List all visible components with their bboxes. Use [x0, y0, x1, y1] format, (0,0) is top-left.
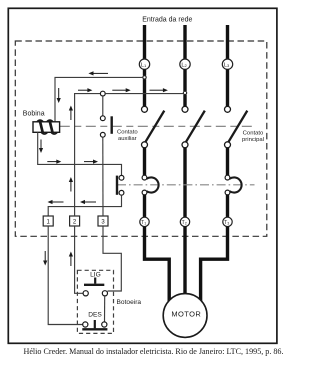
contactor enclosure dashed box: [15, 41, 266, 236]
wire phase3 overload to T3: [226, 195, 229, 217]
node L1 tap: [143, 76, 146, 79]
arrow right on node-to-L2 wire 1: [112, 88, 130, 92]
main contact K3 phase3: [225, 106, 248, 148]
svg-text:Bobina: Bobina: [23, 111, 45, 118]
main contact K2 phase2: [182, 106, 205, 148]
arrow up on terminal2 wire bottom: [69, 252, 73, 267]
arrow right on node-to-L2 wire 2: [150, 88, 168, 92]
arrow left on wire to terminal 1 (left): [48, 200, 64, 204]
wire LIG right to DES right: [104, 296, 106, 322]
wire terminal2 down to LIG left: [75, 226, 84, 293]
arrow down on coil feed: [57, 88, 61, 103]
node L2 return: [183, 91, 186, 94]
overload element F3 phase3: [225, 175, 241, 195]
svg-text:T2: T2: [182, 220, 187, 226]
motor lead T2: [183, 227, 186, 296]
mechanical link dash line contacts: [60, 125, 254, 127]
arrow up on terminal2 wire mid: [69, 177, 73, 192]
seal node junction: [100, 91, 105, 96]
terminal block 3: [98, 216, 108, 226]
motor M1: [163, 294, 207, 338]
wire terminal2 up to seal node: [75, 94, 101, 216]
pushbutton LIG (NO): [83, 278, 107, 296]
overload element F1 phase1: [142, 175, 158, 195]
svg-text:T1: T1: [141, 220, 146, 226]
control wire L1 tap horizontal: [55, 77, 143, 121]
terminal T1: [140, 217, 149, 226]
wire L2 drop from top: [183, 25, 186, 59]
fuse L1: [139, 59, 149, 69]
wire L2 to main contact: [183, 95, 186, 107]
wire L2 below fuse: [183, 69, 186, 91]
coil output wire down-right to trip contact: [38, 132, 122, 175]
svg-text:Botoeira: Botoeira: [117, 299, 142, 306]
svg-text:Contato: Contato: [243, 131, 264, 137]
arrow left on tap wire: [88, 71, 108, 75]
svg-text:L1: L1: [141, 62, 147, 68]
arrow right on coil output wire 2: [84, 160, 98, 164]
arrow up on terminal2 wire top: [69, 106, 73, 121]
svg-text:auxiliar: auxiliar: [118, 136, 137, 142]
coil K1 (bobina): [33, 120, 60, 134]
overload trip dash-dot line: [117, 184, 255, 186]
wire terminal1 down to DES: [48, 226, 82, 325]
wire L1 drop from top: [143, 25, 146, 59]
svg-text:L2: L2: [181, 62, 187, 68]
arrow left on wire to terminal 1 (right): [80, 200, 96, 204]
wire L3 drop from top: [226, 25, 229, 59]
svg-text:Contato: Contato: [117, 130, 138, 136]
wire phase2 contact to T2: [183, 148, 186, 218]
botoeira dashed box: [77, 270, 113, 333]
wire phase1 contact to overload: [143, 148, 146, 176]
terminal block 2: [70, 216, 80, 226]
wire trip contact to terminal 1: [48, 195, 121, 216]
border frame: [8, 8, 277, 343]
terminal T3: [223, 217, 232, 226]
wire L1 to main contact: [143, 79, 146, 106]
svg-text:L3: L3: [224, 62, 230, 68]
overload trip contact 95-96: [117, 175, 124, 195]
wire aux contact down to terminal 3: [102, 137, 104, 216]
wire L1 below fuse: [143, 69, 146, 75]
wire phase1 overload to T1: [143, 195, 146, 217]
wire terminal3 down to LIG right: [103, 226, 121, 291]
svg-text:LIG: LIG: [90, 272, 101, 279]
arrow right on tap-to-node wire: [78, 88, 92, 92]
terminal block 1: [43, 216, 53, 226]
wire seal node down to aux contact: [102, 96, 104, 116]
arrow down on coil output: [39, 140, 43, 154]
svg-text:T3: T3: [224, 220, 229, 226]
main contact K1 phase1: [142, 106, 165, 148]
svg-text:principal: principal: [242, 137, 264, 143]
arrow down on terminal1 wire: [43, 251, 47, 266]
motor lead T3: [201, 227, 228, 303]
fuse L3: [222, 59, 232, 69]
wire phase3 contact to overload: [226, 148, 229, 176]
aux contact 13-14: [100, 116, 111, 137]
caption: [4, 347, 304, 356]
fuse L2: [180, 59, 190, 69]
svg-text:MOTOR: MOTOR: [171, 310, 201, 319]
wire L3 to main contact: [226, 69, 229, 106]
svg-text:DES: DES: [88, 312, 102, 319]
arrow right on coil output wire 1: [47, 160, 61, 164]
pushbutton DES (NC): [82, 320, 107, 329]
motor lead T1: [145, 227, 170, 303]
terminal T2: [180, 217, 189, 226]
svg-text:Entrada da rede: Entrada da rede: [142, 17, 192, 24]
wire seal node to L2 node: [105, 93, 183, 95]
